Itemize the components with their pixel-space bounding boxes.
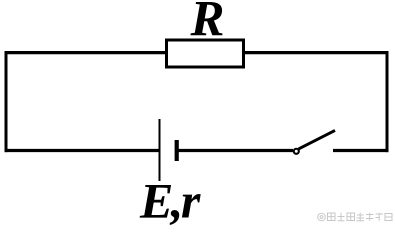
battery E,r: short plate (negative) [175,140,179,161]
svg-text:R: R [190,0,225,48]
svg-text:E,r: E,r [139,173,201,227]
wire: switch to bottom right corner [333,149,389,152]
wire: right vertical [386,51,389,152]
wire: left vertical [5,51,8,152]
switch S: contact circle [294,149,299,154]
wire: bottom left to battery [5,149,160,152]
wire: battery to switch [177,149,293,152]
switch S: lever arm [299,130,335,149]
battery E,r: long plate (positive) [159,119,161,181]
resistor R (box) [167,40,244,67]
watermark @稀土掘金技术社区 [318,213,392,221]
wire: top horizontal [5,51,389,54]
